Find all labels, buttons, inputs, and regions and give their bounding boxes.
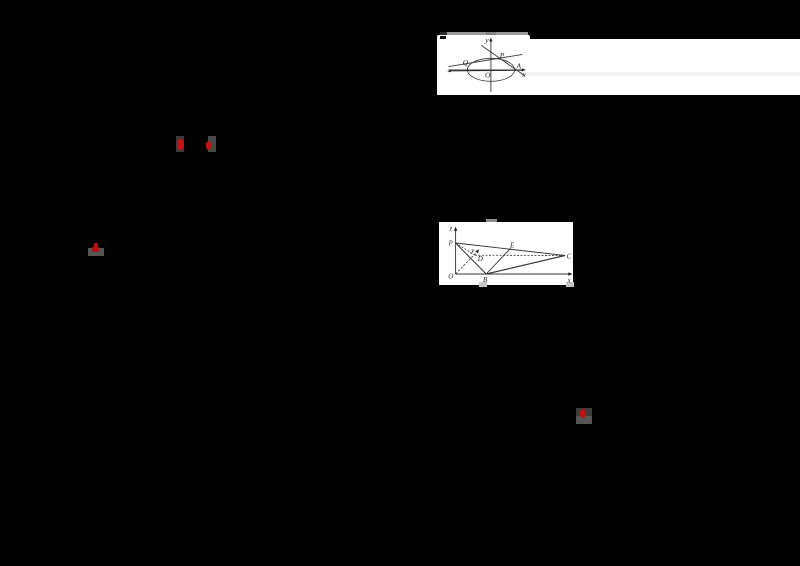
red mark M3 glyph body	[92, 246, 99, 252]
red mark M4 gray highlight lower	[576, 416, 593, 424]
edge B-C	[486, 256, 565, 275]
red mark M1 gray highlight	[176, 136, 184, 152]
x-axis arrowhead	[568, 272, 572, 275]
svg-text:Q: Q	[463, 58, 469, 67]
ellipse	[467, 58, 514, 81]
svg-text:x: x	[567, 277, 572, 285]
red mark M3 glyph stem	[94, 243, 97, 247]
svg-text:O: O	[448, 272, 453, 280]
figure 2 white panel (3D geometry figure box)	[439, 222, 573, 285]
svg-text:y: y	[470, 247, 475, 255]
y-axis arrowhead	[475, 249, 479, 253]
thick chord Q to A along axis	[449, 69, 522, 72]
svg-text:x: x	[522, 70, 527, 79]
edge P-C lower (P to C via B side)	[486, 256, 565, 275]
x-axis arrowhead	[522, 68, 526, 71]
small gray tab above figure 2	[486, 219, 497, 223]
gray boxlet under B	[479, 282, 487, 287]
shallow line through Q and P	[449, 54, 523, 66]
figure 2 drawing (tetrahedron P-OBC with axes)	[439, 222, 576, 285]
dark left cap of bar	[440, 32, 447, 35]
red mark M2 gray highlight lower	[208, 144, 216, 152]
figure 1 drawing (ellipse with axes, lines PQ, points P Q A O)	[437, 35, 533, 97]
svg-text:B: B	[483, 276, 488, 284]
y-axis dashed	[456, 251, 478, 274]
gray toolbar bar above figure 1	[440, 32, 528, 35]
svg-text:A: A	[516, 62, 522, 71]
red mark M1 glyph	[177, 139, 183, 151]
y-axis arrowhead	[489, 38, 492, 42]
svg-text:O: O	[485, 71, 491, 80]
faint horizontal smear across band	[520, 72, 800, 76]
red mark M2 glyph	[206, 141, 212, 150]
dashed D-C	[475, 254, 565, 256]
figure 1 white band extension to right edge	[437, 39, 800, 95]
figure 1 white panel (ellipse figure box)	[437, 35, 530, 95]
x-axis	[456, 273, 571, 275]
svg-text:E: E	[509, 241, 515, 249]
svg-text:P: P	[448, 240, 454, 248]
svg-text:D: D	[477, 255, 483, 263]
red mark M2 gray highlight upper	[208, 136, 216, 144]
red mark M3 gray highlight	[88, 248, 104, 256]
red mark M4 glyph	[580, 409, 586, 418]
svg-text:C: C	[567, 253, 572, 261]
darker mid segment of bar	[486, 32, 496, 35]
edge B-E	[486, 248, 510, 274]
x-axis	[449, 69, 525, 71]
z-axis arrowhead	[454, 227, 457, 231]
svg-text:y: y	[484, 36, 489, 45]
z-axis	[455, 229, 457, 274]
svg-text:z: z	[449, 225, 453, 233]
steep line through P and A	[481, 45, 524, 75]
y-axis	[490, 40, 492, 93]
svg-text:P: P	[499, 51, 505, 60]
dashed P-D	[456, 243, 475, 255]
gray boxlet under C/x	[566, 282, 574, 287]
edge P-C through E	[456, 243, 565, 256]
red mark M4 gray highlight upper	[576, 408, 593, 416]
edge P-B	[456, 243, 487, 274]
left small arrowhead of chord line	[447, 70, 451, 72]
black notch at top-left of figure 1 panel	[440, 36, 446, 40]
